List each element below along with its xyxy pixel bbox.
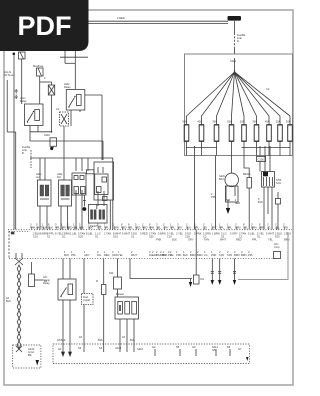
svg-text:PPL: PPL	[248, 253, 253, 257]
svg-text:G20: G20	[78, 234, 83, 238]
ground: arrow on branch	[189, 282, 192, 287]
fuse F2	[197, 120, 204, 156]
wire: generator feed from fuse block	[231, 156, 233, 174]
svg-text:BLK: BLK	[163, 253, 168, 257]
svg-text:G3: G3	[192, 345, 196, 349]
fuse: maxi fuse under badge	[33, 64, 46, 82]
label: ground block tags	[58, 345, 249, 361]
svg-text:30A: 30A	[286, 120, 291, 124]
junction: splice dot	[44, 131, 52, 137]
svg-text:ORN: ORN	[112, 253, 118, 257]
svg-text:1 TAN: 1 TAN	[104, 232, 111, 236]
svg-text:YEL: YEL	[97, 225, 102, 229]
svg-text:G6: G6	[212, 348, 216, 352]
svg-text:ORN: ORN	[113, 225, 119, 229]
wire: K1 outputs	[30, 126, 103, 142]
svg-text:WHT: WHT	[131, 253, 137, 257]
ground: arrow branch 2	[218, 259, 221, 286]
svg-text:G104: G104	[115, 346, 122, 350]
svg-text:TAN: TAN	[219, 253, 224, 257]
diode: small component with ground dot	[50, 138, 57, 150]
svg-text:OIL: OIL	[200, 277, 205, 281]
svg-text:5 RED: 5 RED	[140, 232, 148, 236]
svg-text:YEL: YEL	[156, 225, 161, 229]
connector block C2 (starter relay block)	[262, 172, 282, 188]
svg-text:S100: S100	[230, 59, 237, 63]
svg-text:BLK: BLK	[98, 338, 103, 342]
wire: oil pressure feed from main bus	[195, 230, 197, 259]
wire: drop into headlamp area	[40, 141, 103, 180]
svg-text:S20: S20	[275, 234, 280, 238]
svg-text:C2: C2	[266, 87, 270, 91]
ground: arrow branch 3	[233, 259, 236, 286]
svg-text:PNK: PNK	[211, 253, 217, 257]
label: wire tags above main bus	[30, 223, 288, 230]
svg-text:LG: LG	[170, 253, 173, 257]
svg-text:RED: RED	[142, 225, 148, 229]
svg-text:LH: LH	[36, 175, 39, 179]
svg-text:BLK: BLK	[186, 225, 191, 229]
fuse F1	[182, 120, 189, 156]
svg-text:S4: S4	[99, 346, 103, 350]
label: wire tag	[211, 192, 216, 199]
junction block J1	[228, 16, 242, 21]
svg-text:PPL: PPL	[252, 238, 257, 242]
wire: inner bus of fuse block (right segment)	[242, 146, 291, 156]
svg-text:YEL: YEL	[268, 238, 273, 242]
svg-text:Maxifuse: Maxifuse	[33, 64, 44, 68]
svg-text:BLK: BLK	[79, 225, 84, 229]
svg-text:PNK: PNK	[30, 225, 36, 229]
wire: C4 drops	[120, 289, 134, 344]
wire: long branch y158	[30, 126, 113, 230]
svg-text:PPL: PPL	[211, 195, 216, 199]
fuse: small fuse with X body	[48, 85, 54, 132]
svg-text:20A: 20A	[240, 120, 245, 124]
svg-text:Blower: Blower	[116, 292, 124, 296]
svg-text:Relay: Relay	[20, 99, 27, 103]
svg-text:2 PNK: 2 PNK	[194, 232, 202, 236]
fuse F9	[286, 120, 293, 156]
svg-text:BRN: BRN	[190, 253, 196, 257]
wire: fuse F3 output down	[215, 156, 217, 230]
svg-text:GRY: GRY	[177, 225, 183, 229]
wire: feed down from J1	[234, 21, 236, 33]
svg-text:BLK: BLK	[172, 238, 177, 242]
svg-text:BLK: BLK	[130, 338, 135, 342]
svg-text:PPL: PPL	[219, 225, 224, 229]
svg-text:DG: DG	[203, 225, 207, 229]
svg-text:2 RED: 2 RED	[117, 16, 125, 20]
component: dashed fuel cutoff switch	[82, 259, 94, 345]
svg-text:BRN: BRN	[259, 225, 265, 229]
svg-text:G1: G1	[95, 234, 99, 238]
label: tags above ground block	[57, 335, 135, 342]
svg-text:PPL: PPL	[227, 225, 232, 229]
fuse: inline fuse right of generator	[243, 156, 251, 230]
twisted pair chain	[17, 265, 21, 349]
svg-text:D: D	[237, 39, 239, 43]
svg-text:R: R	[96, 279, 98, 283]
svg-text:G7: G7	[238, 347, 242, 351]
svg-text:G1: G1	[62, 234, 66, 238]
svg-text:50A: 50A	[227, 120, 232, 124]
splice: entries in ground block	[62, 320, 231, 356]
component: sensor right of chain	[29, 262, 48, 287]
connector block C4 (lower middle)	[115, 292, 139, 319]
svg-text:All Times: All Times	[4, 73, 15, 77]
fuse F8	[276, 120, 283, 156]
svg-text:5 WHT: 5 WHT	[122, 232, 130, 236]
wire: battery feed top bus	[70, 16, 228, 24]
svg-text:GRY: GRY	[84, 253, 90, 257]
svg-text:PPL: PPL	[55, 225, 60, 229]
svg-text:25A: 25A	[276, 120, 281, 124]
svg-text:S210: S210	[137, 347, 144, 351]
svg-text:TAN: TAN	[227, 253, 232, 257]
svg-text:GRY: GRY	[163, 225, 169, 229]
wire: K2 outputs	[64, 95, 102, 160]
wire: connector outputs down	[264, 187, 272, 230]
svg-text:8 LBL: 8 LBL	[86, 232, 93, 236]
svg-text:BLK: BLK	[64, 253, 69, 257]
svg-text:C100: C100	[258, 158, 265, 162]
generator G1	[219, 173, 240, 205]
svg-text:C1: C1	[56, 107, 60, 111]
svg-text:C10: C10	[33, 234, 38, 238]
svg-text:RED: RED	[235, 201, 241, 205]
svg-text:S1: S1	[131, 234, 135, 238]
resistor R1	[96, 259, 106, 345]
svg-text:RED: RED	[121, 225, 127, 229]
component: oil pressure switch	[194, 259, 205, 285]
fuse F3	[212, 120, 219, 156]
node: second splice bus (dotted)	[9, 258, 276, 260]
ground block GB2 (dashed, bottom main)	[53, 344, 249, 364]
svg-text:GRY: GRY	[152, 253, 158, 257]
ground: generator case	[226, 200, 230, 214]
svg-text:Relay: Relay	[43, 281, 50, 285]
svg-text:Cutoff: Cutoff	[83, 298, 90, 302]
svg-text:BRN: BRN	[251, 225, 257, 229]
svg-text:TAN: TAN	[283, 225, 288, 229]
svg-text:18 BLK: 18 BLK	[57, 338, 66, 342]
svg-text:BLK: BLK	[88, 225, 93, 229]
fuse F6	[252, 120, 259, 156]
svg-text:S20: S20	[149, 234, 154, 238]
label: hot at all times (left, under badge)	[4, 70, 15, 77]
svg-text:S110: S110	[44, 133, 50, 137]
svg-text:BRN: BRN	[235, 225, 241, 229]
PDF badge	[0, 0, 89, 51]
label: extra tags near second bus	[152, 238, 290, 258]
svg-text:RH: RH	[57, 175, 61, 179]
svg-text:YEL: YEL	[243, 225, 248, 229]
ground block GB1 (dashed, bottom left)	[13, 345, 41, 368]
svg-text:LBL: LBL	[275, 225, 280, 229]
svg-text:BLK: BLK	[183, 253, 188, 257]
wire into fuse block	[234, 47, 236, 58]
svg-text:G10: G10	[113, 234, 118, 238]
wire: K4 feeds	[63, 259, 70, 345]
node: fan-out splice	[234, 70, 236, 72]
svg-text:BLK: BLK	[48, 225, 53, 229]
splice: ground crossover X	[15, 253, 23, 265]
relay K3 small box	[94, 162, 114, 201]
svg-text:RED: RED	[236, 238, 242, 242]
svg-text:BRN: BRN	[197, 253, 203, 257]
svg-text:30A: 30A	[212, 120, 217, 124]
svg-text:1 BRN: 1 BRN	[212, 232, 220, 236]
svg-text:YEL: YEL	[118, 253, 123, 257]
svg-text:S1: S1	[47, 234, 51, 238]
svg-text:SW: SW	[109, 271, 114, 275]
svg-text:B: B	[22, 151, 24, 155]
svg-text:PPL: PPL	[194, 225, 199, 229]
connector C3 block	[72, 173, 86, 195]
label: fusible link b text	[22, 145, 31, 168]
label: wire tags below main bus	[33, 232, 291, 239]
svg-text:SOL: SOL	[276, 181, 282, 185]
node: main splice bus (dotted)	[8, 229, 292, 231]
wire: dashed drop at far left	[9, 231, 30, 259]
svg-text:BRN: BRN	[284, 238, 290, 242]
wire: fuse F1 output to splice bus	[194, 156, 196, 230]
ground: arrow right branch	[211, 259, 214, 286]
svg-text:GRY: GRY	[61, 225, 67, 229]
wires: fan-out to fuses	[187, 72, 291, 125]
svg-text:BRN: BRN	[241, 253, 247, 257]
fuse F7	[265, 120, 272, 156]
svg-text:G1: G1	[257, 234, 261, 238]
splice: dot under connector	[83, 195, 87, 211]
svg-text:S6: S6	[227, 345, 231, 349]
fusible link B	[19, 52, 26, 68]
svg-text:40A: 40A	[197, 120, 202, 124]
svg-text:BLK: BLK	[258, 200, 263, 204]
connector: dashed inline connector	[56, 107, 69, 126]
wire: drops from headlamps to splice bus	[40, 190, 104, 230]
underhood fuse block U1	[185, 54, 293, 156]
wire: into fuse X	[22, 68, 52, 104]
connector C100 label	[257, 157, 266, 162]
svg-text:G2: G2	[152, 345, 156, 349]
svg-text:1 LBL: 1 LBL	[70, 232, 77, 236]
svg-text:TAN: TAN	[204, 238, 209, 242]
wire: block outputs down to C100 connector	[260, 156, 270, 172]
svg-text:S2: S2	[11, 231, 15, 235]
fuse F5	[240, 120, 247, 156]
wire: left feed down	[7, 53, 16, 230]
lamp E1 (headlamp LH)	[36, 172, 51, 206]
svg-text:S5: S5	[176, 345, 180, 349]
svg-text:GRY: GRY	[188, 238, 194, 242]
svg-text:G1: G1	[58, 347, 62, 351]
relay K4 (lower left)	[43, 275, 76, 300]
svg-text:Relay: Relay	[64, 85, 71, 89]
svg-text:PPL: PPL	[170, 225, 175, 229]
fusible link A	[235, 33, 246, 47]
svg-text:S3: S3	[78, 346, 82, 350]
component: pressure switch	[109, 259, 122, 298]
svg-text:RED: RED	[135, 225, 141, 229]
svg-text:BLK: BLK	[42, 225, 47, 229]
svg-text:BAT: BAT	[219, 177, 224, 181]
label: tags above second bus	[64, 250, 240, 257]
svg-text:PPL: PPL	[128, 225, 133, 229]
label: mid wire tags right column	[258, 192, 281, 230]
svg-text:LG: LG	[204, 253, 207, 257]
wire: lower long horizontal branch	[130, 259, 192, 283]
component: end of second bus	[274, 242, 281, 259]
svg-text:5 WHT: 5 WHT	[266, 232, 274, 236]
svg-text:MEGA: MEGA	[243, 172, 251, 176]
lamp E2 (headlamp RH)	[57, 172, 72, 206]
svg-text:YEL: YEL	[73, 225, 78, 229]
svg-text:BLK: BLK	[6, 299, 11, 303]
svg-text:5 LBL: 5 LBL	[248, 232, 255, 236]
svg-text:RED: RED	[104, 253, 110, 257]
svg-text:PNK: PNK	[156, 238, 162, 242]
wire: feed to relay K2	[60, 51, 88, 90]
svg-text:GRY: GRY	[211, 225, 217, 229]
component: park/turn lamp block	[89, 205, 108, 229]
relay K1 (horn relay)	[20, 96, 43, 126]
svg-text:PNK: PNK	[176, 253, 182, 257]
svg-text:40A: 40A	[265, 120, 270, 124]
svg-text:PPL: PPL	[71, 253, 76, 257]
fuse F4	[227, 120, 234, 156]
wire: inner bus of fuse block (left segment)	[186, 146, 217, 156]
svg-text:PNK: PNK	[149, 225, 155, 229]
svg-text:PDF: PDF	[18, 11, 72, 41]
svg-text:30A: 30A	[182, 120, 187, 124]
svg-text:5 BRN: 5 BRN	[158, 232, 166, 236]
svg-text:BRN: BRN	[234, 253, 240, 257]
relay K2 (hdlp relay)	[64, 82, 85, 110]
svg-text:2 YEL: 2 YEL	[176, 232, 184, 236]
wire: grey return line	[238, 232, 288, 280]
label: chain tag	[6, 296, 11, 303]
svg-text:Cmp: Cmp	[274, 245, 280, 249]
svg-text:PPL: PPL	[104, 225, 109, 229]
connector: dashed inline marker on left feed	[15, 89, 18, 99]
svg-text:RED: RED	[67, 225, 73, 229]
svg-text:30A: 30A	[252, 120, 257, 124]
svg-text:WHT: WHT	[220, 238, 226, 242]
svg-text:5 GRY: 5 GRY	[230, 232, 238, 236]
connector C243 tag	[87, 170, 95, 174]
svg-text:DG: DG	[97, 253, 101, 257]
